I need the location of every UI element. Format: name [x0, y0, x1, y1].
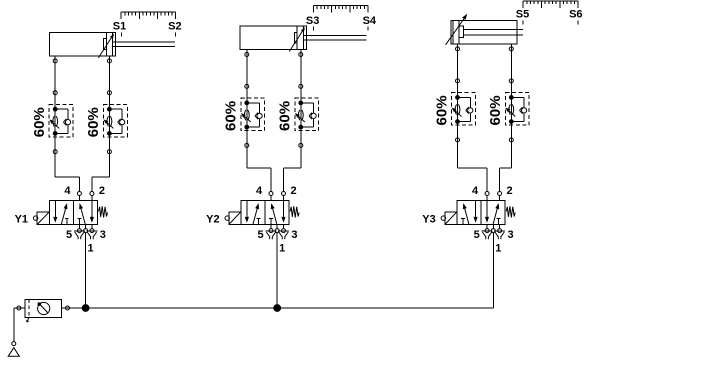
svg-text:60%: 60%: [31, 107, 48, 137]
svg-text:S5: S5: [516, 9, 529, 21]
svg-text:S3: S3: [306, 15, 319, 27]
svg-text:5: 5: [474, 229, 480, 241]
svg-text:1: 1: [495, 242, 501, 254]
svg-text:1: 1: [279, 242, 285, 254]
svg-text:Y2: Y2: [206, 213, 219, 225]
svg-text:5: 5: [66, 229, 72, 241]
svg-text:5: 5: [258, 229, 264, 241]
svg-text:3: 3: [507, 229, 513, 241]
svg-text:60%: 60%: [433, 95, 450, 125]
svg-text:4: 4: [472, 185, 479, 197]
svg-text:60%: 60%: [223, 101, 240, 131]
svg-text:S1: S1: [113, 20, 126, 32]
svg-text:60%: 60%: [487, 95, 504, 125]
svg-text:2: 2: [99, 185, 105, 197]
svg-text:4: 4: [256, 185, 263, 197]
svg-text:1: 1: [88, 242, 94, 254]
svg-text:2: 2: [507, 185, 513, 197]
svg-text:60%: 60%: [85, 107, 102, 137]
svg-text:S6: S6: [569, 9, 582, 21]
svg-text:3: 3: [100, 229, 106, 241]
svg-text:S2: S2: [168, 20, 181, 32]
svg-text:60%: 60%: [277, 101, 294, 131]
svg-text:4: 4: [64, 185, 71, 197]
svg-text:S4: S4: [363, 15, 377, 27]
svg-text:Y1: Y1: [15, 213, 28, 225]
svg-text:2: 2: [290, 185, 296, 197]
svg-text:Y3: Y3: [422, 213, 435, 225]
svg-text:3: 3: [291, 229, 297, 241]
